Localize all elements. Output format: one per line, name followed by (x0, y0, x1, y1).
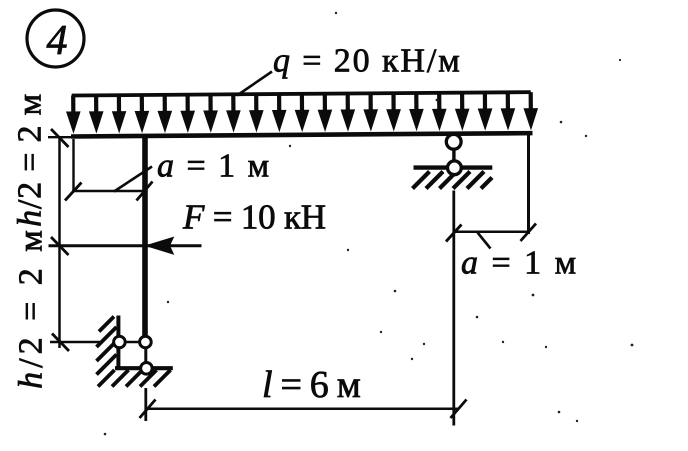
scan noise specks (104, 12, 634, 436)
link hinge A to B (119, 341, 146, 344)
right support base line (414, 165, 493, 169)
left vertical dimension line h (58, 136, 61, 348)
svg-text:F = 10 кН: F = 10 кН (182, 198, 326, 237)
beam-level extension line to dimension line (48, 136, 72, 138)
leader for a label left (114, 167, 152, 192)
bottom extension from left support (144, 388, 147, 421)
tick left end of a (65, 183, 82, 201)
lower-left support wall hatching (97, 317, 117, 375)
q value label leader (237, 72, 272, 96)
right support hinge link line (452, 147, 455, 165)
tick at force level (51, 237, 69, 255)
leader for right a label (478, 233, 491, 249)
hinge B circle (140, 336, 152, 348)
svg-text:4: 4 (47, 18, 68, 64)
lower-left support wall edge (116, 316, 120, 368)
right support upper hinge circle (446, 134, 461, 149)
problem number circle 4 (27, 10, 84, 67)
svg-text:h/2 = 2 м: h/2 = 2 м (12, 93, 49, 227)
right support hatching (413, 172, 493, 189)
lower-left support floor line (115, 366, 173, 370)
link hinge B to C (144, 342, 147, 368)
dimension line a (left) (72, 190, 147, 193)
tick right end of right a (521, 224, 537, 242)
force F arrow line (49, 244, 202, 247)
tick at lower support level (52, 334, 69, 352)
svg-text:h/2 = 2 м: h/2 = 2 м (13, 226, 50, 389)
right extension line from support down (452, 191, 455, 426)
force F arrowhead (147, 238, 173, 254)
dimension line a (right) (455, 230, 529, 233)
svg-text:a = 1 м: a = 1 м (461, 245, 579, 282)
left column (vertical member) (142, 135, 148, 338)
hinge C circle (141, 363, 153, 375)
svg-text:q = 20 кН/м: q = 20 кН/м (273, 43, 462, 80)
tick right end of l (451, 400, 467, 419)
top assembly: load line, arrows, beam (scan tilt) (66, 92, 538, 136)
dimension line l (147, 408, 458, 411)
tick left end of right a (446, 225, 462, 242)
lower-left support floor hatching (98, 370, 171, 387)
tick at beam level (51, 129, 69, 147)
tick left end of l (140, 400, 156, 419)
right edge extension line from beam (527, 135, 530, 234)
hinge A circle (114, 336, 126, 348)
top beam (rigid bar) (71, 133, 532, 136)
distributed load q top line (72, 92, 531, 95)
dimension a extension line below beam left (72, 139, 74, 192)
right support lower hinge circle (448, 161, 462, 175)
distributed load arrows (66, 92, 538, 134)
tick right end of a (137, 182, 153, 201)
svg-text:a = 1 м: a = 1 м (157, 148, 271, 185)
svg-text:l = 6 м: l = 6 м (262, 364, 361, 406)
extension line from dim line to support (50, 341, 100, 344)
